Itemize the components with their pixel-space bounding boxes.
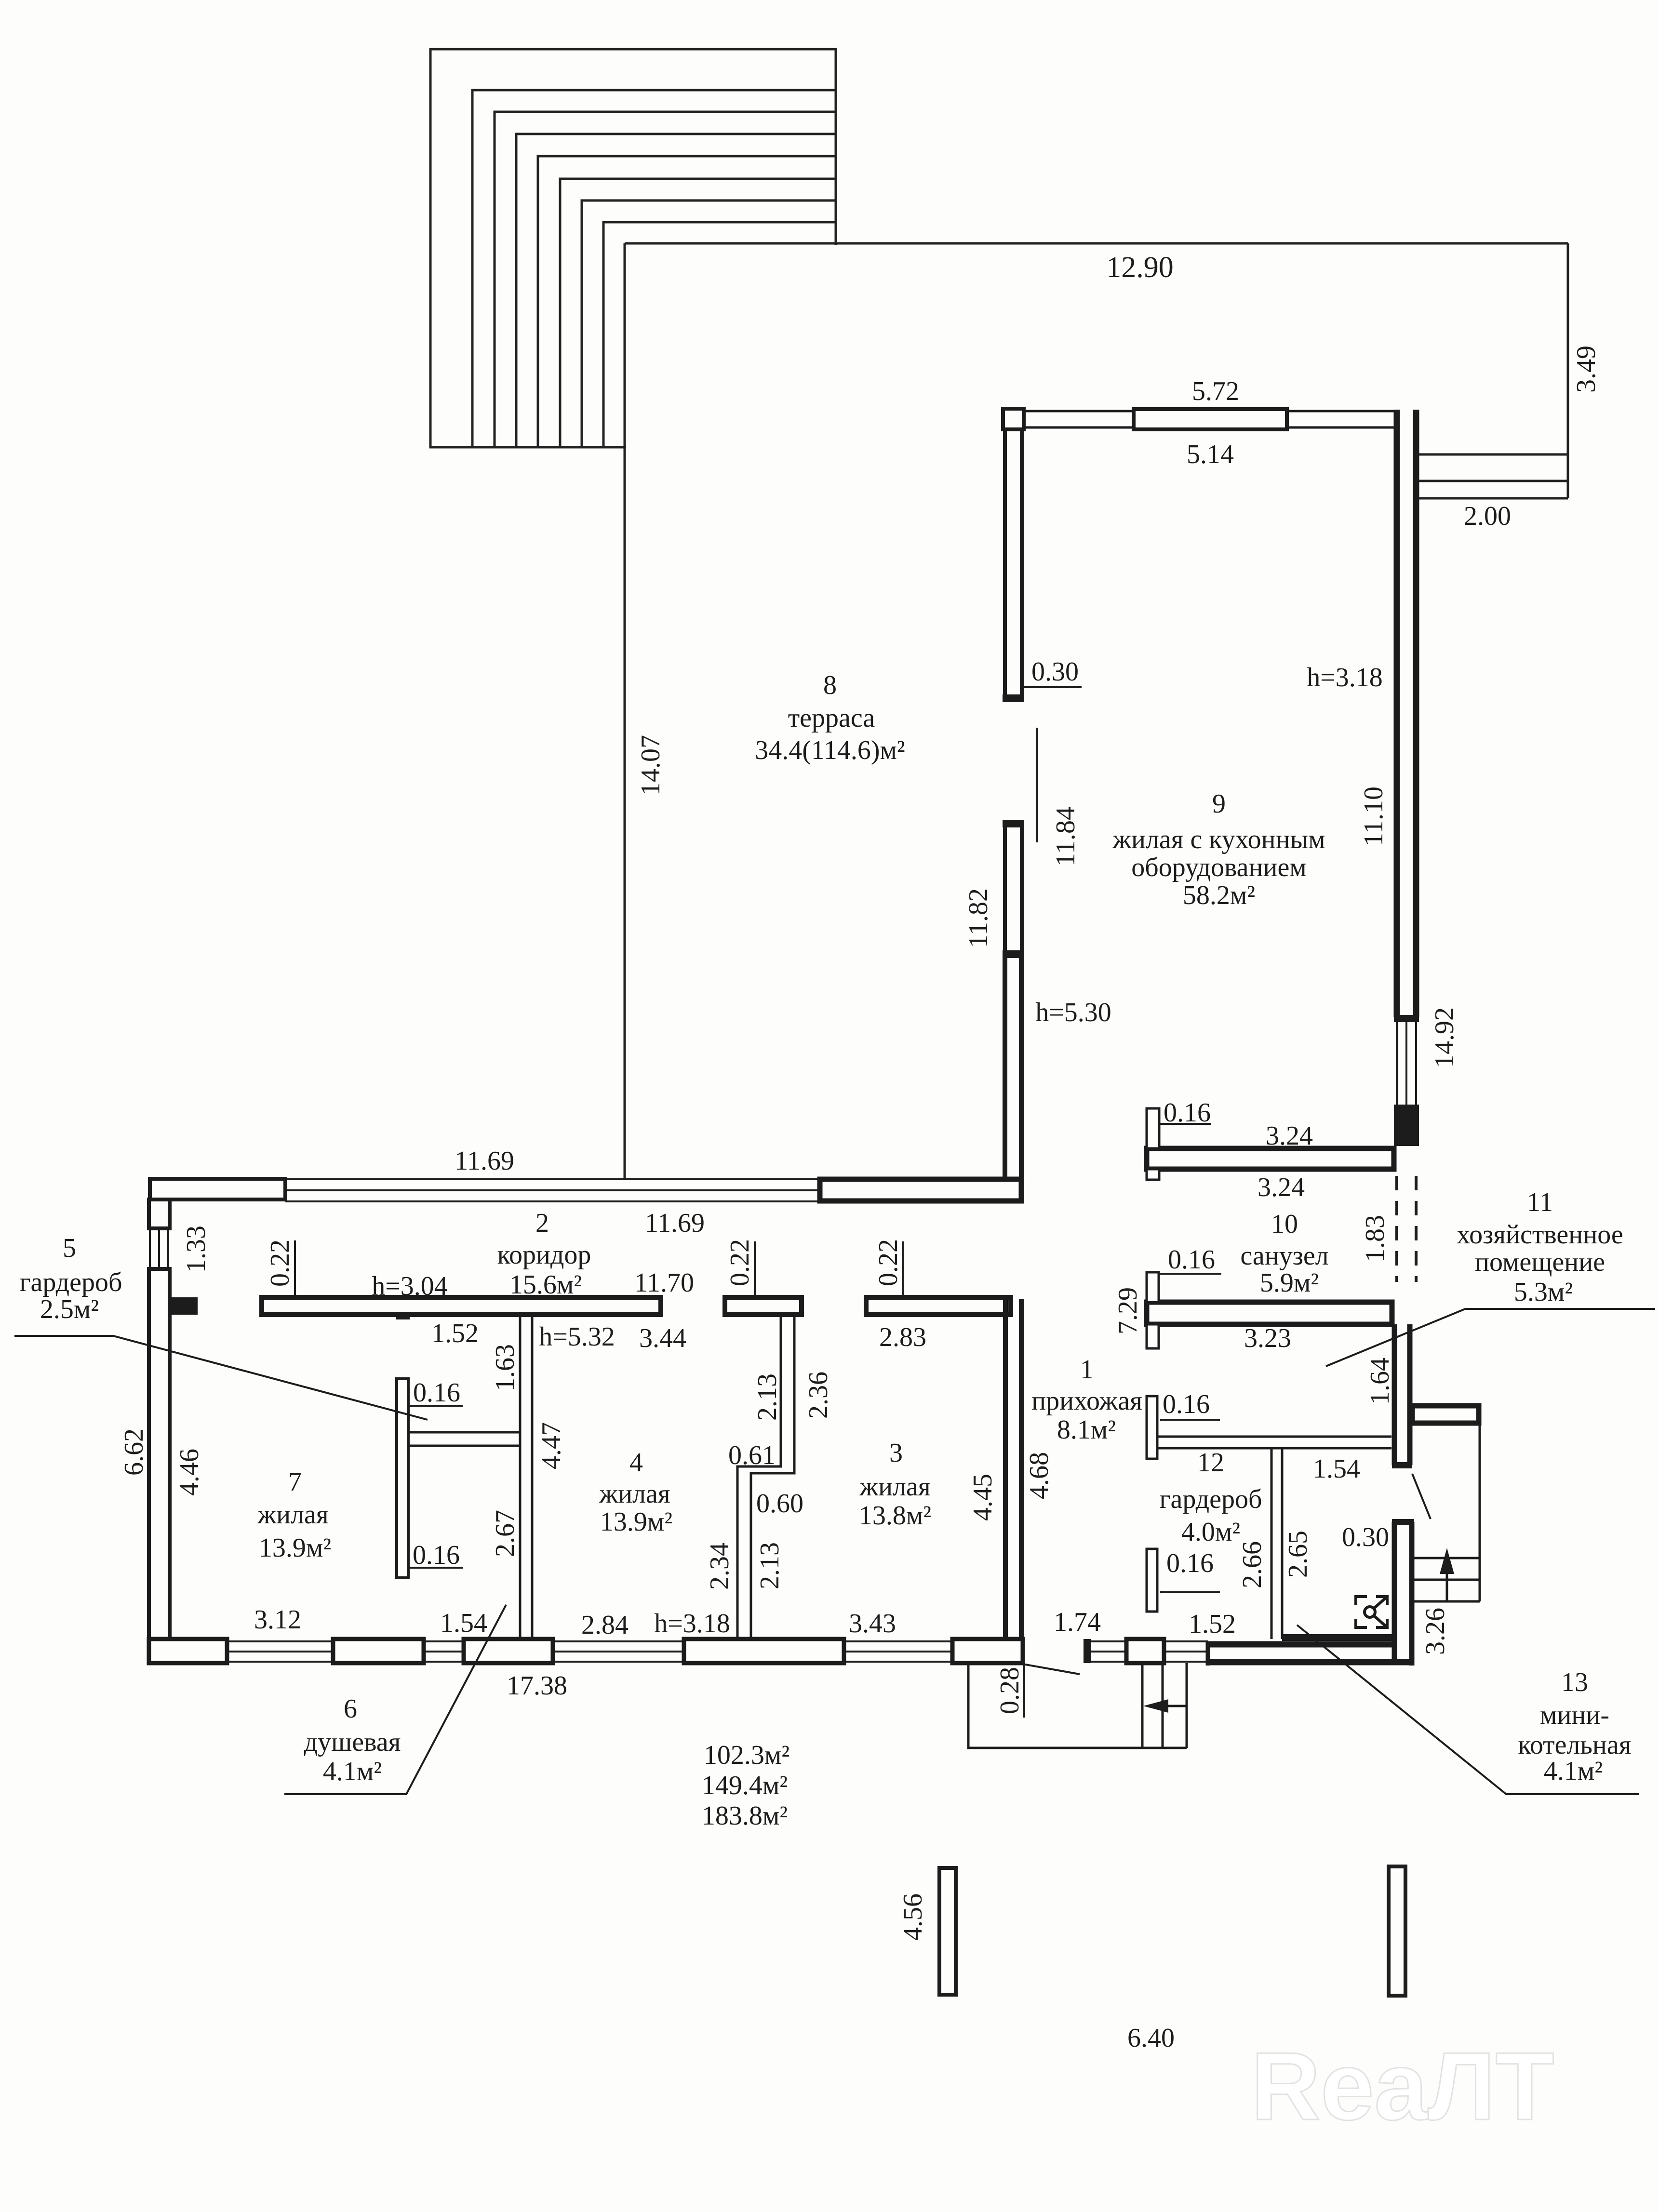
svg-text:3.26: 3.26 bbox=[1420, 1608, 1450, 1655]
svg-text:хозяйственное: хозяйственное bbox=[1457, 1220, 1623, 1250]
svg-text:2.84: 2.84 bbox=[581, 1610, 629, 1640]
svg-text:11.10: 11.10 bbox=[1359, 786, 1389, 846]
svg-text:2.13: 2.13 bbox=[752, 1373, 782, 1421]
svg-text:h=5.32: h=5.32 bbox=[539, 1322, 615, 1352]
bottom wall window 2.84 bbox=[844, 1641, 952, 1662]
stoop up-arrow bbox=[1446, 1564, 1448, 1601]
svg-text:3.44: 3.44 bbox=[639, 1323, 686, 1353]
corridor top wall: corner pier bbox=[150, 1179, 285, 1199]
svg-text:17.38: 17.38 bbox=[507, 1671, 567, 1701]
0.16 underline shower bbox=[408, 1567, 463, 1569]
svg-text:h=3.18: h=3.18 bbox=[654, 1609, 730, 1639]
sanuzel bottom wall 3.23 bbox=[1147, 1302, 1392, 1324]
svg-text:5: 5 bbox=[63, 1233, 76, 1263]
leader room 11 bbox=[1326, 1309, 1655, 1366]
svg-text:h=5.30: h=5.30 bbox=[1035, 998, 1111, 1027]
svg-text:12.90: 12.90 bbox=[1106, 251, 1174, 284]
svg-text:2.00: 2.00 bbox=[1464, 501, 1511, 531]
bottom wall pier bbox=[684, 1639, 844, 1663]
room 9 left wall cap bbox=[1003, 694, 1024, 702]
svg-text:1.33: 1.33 bbox=[181, 1226, 211, 1273]
leader room 5 bbox=[14, 1336, 428, 1420]
svg-text:149.4м²: 149.4м² bbox=[702, 1771, 788, 1800]
room 9 left wall: window lower bbox=[1005, 827, 1022, 950]
svg-text:2.13: 2.13 bbox=[755, 1542, 785, 1589]
svg-text:4.56: 4.56 bbox=[898, 1893, 928, 1941]
roof eaves nested corners bbox=[430, 49, 836, 447]
bottom wall pier bbox=[952, 1639, 1023, 1663]
svg-text:11.69: 11.69 bbox=[455, 1146, 514, 1176]
corridor bottom wall seg 2 bbox=[725, 1297, 802, 1315]
svg-text:4.1м²: 4.1м² bbox=[323, 1757, 382, 1786]
svg-text:0.16: 0.16 bbox=[1164, 1098, 1211, 1128]
leader room 6 bbox=[284, 1605, 506, 1794]
svg-text:3: 3 bbox=[889, 1438, 903, 1468]
room 9 top wall: corner pier bbox=[1003, 409, 1024, 429]
svg-text:8.1м²: 8.1м² bbox=[1057, 1415, 1116, 1445]
svg-text:7: 7 bbox=[288, 1467, 302, 1497]
svg-text:14.07: 14.07 bbox=[636, 735, 666, 796]
svg-text:15.6м²: 15.6м² bbox=[509, 1270, 582, 1300]
porch outline bbox=[968, 1663, 1187, 1748]
bottom wall pier bbox=[464, 1639, 553, 1663]
0.90 bump wall bbox=[1412, 1406, 1479, 1423]
svg-text:0.60: 0.60 bbox=[756, 1489, 803, 1519]
svg-text:2.34: 2.34 bbox=[705, 1543, 735, 1590]
bottom wall: corner pier bbox=[149, 1639, 227, 1663]
entry arrow bbox=[1166, 1705, 1187, 1707]
svg-text:5.9м²: 5.9м² bbox=[1260, 1268, 1319, 1298]
svg-text:5.72: 5.72 bbox=[1192, 376, 1239, 406]
corridor top wall: thick segment under terrace bbox=[820, 1179, 1021, 1201]
svg-text:2.5м²: 2.5м² bbox=[40, 1294, 99, 1324]
svg-text:душевая: душевая bbox=[304, 1727, 401, 1757]
dim underline 0.30 (terrace wall) bbox=[1024, 686, 1082, 688]
short leader at entry bbox=[1023, 1664, 1080, 1674]
svg-text:0.22: 0.22 bbox=[265, 1239, 295, 1287]
svg-text:2.66: 2.66 bbox=[1237, 1541, 1267, 1588]
svg-text:0.16: 0.16 bbox=[413, 1378, 460, 1408]
svg-text:4.46: 4.46 bbox=[174, 1449, 204, 1496]
left wall window 1.33 bbox=[150, 1228, 168, 1269]
svg-text:4.47: 4.47 bbox=[536, 1422, 566, 1469]
svg-text:жилая: жилая bbox=[859, 1472, 930, 1502]
svg-text:2.65: 2.65 bbox=[1283, 1531, 1313, 1578]
white cover (terrace over eaves) bbox=[626, 245, 838, 450]
room 9 left wall: window upper bbox=[1005, 429, 1022, 694]
0.16 tick column bbox=[1147, 1396, 1157, 1459]
prihozhaya top partition (hoz room floor) bbox=[1157, 1437, 1391, 1448]
partition rooms7/4 (double line) bbox=[520, 1315, 532, 1639]
svg-text:3.49: 3.49 bbox=[1571, 346, 1601, 393]
wall stub near closet 5 bbox=[170, 1297, 198, 1315]
svg-text:11.69: 11.69 bbox=[645, 1208, 705, 1238]
svg-text:11.84: 11.84 bbox=[1051, 807, 1081, 866]
svg-text:коридор: коридор bbox=[497, 1240, 591, 1270]
bottom wall pier bbox=[333, 1639, 424, 1663]
svg-text:3.12: 3.12 bbox=[254, 1605, 301, 1635]
roof right edge bbox=[1567, 243, 1569, 498]
0.16 underline closet bbox=[408, 1405, 463, 1407]
dashed opening 1.83 bbox=[1397, 1176, 1416, 1282]
svg-text:4.68: 4.68 bbox=[1024, 1452, 1054, 1499]
0.28 step line bbox=[1023, 1663, 1025, 1718]
svg-text:оборудованием: оборудованием bbox=[1131, 853, 1307, 882]
boiler west wall cap bbox=[1392, 1519, 1414, 1525]
svg-text:жилая: жилая bbox=[257, 1500, 328, 1530]
svg-text:котельная: котельная bbox=[1518, 1730, 1631, 1760]
svg-text:13.9м²: 13.9м² bbox=[259, 1533, 331, 1563]
corridor bottom wall seg 1 bbox=[262, 1297, 661, 1315]
prihozhaya west wall (hollow) bbox=[1003, 1299, 1008, 1639]
svg-text:34.4(114.6)м²: 34.4(114.6)м² bbox=[755, 735, 905, 765]
tick below bbox=[1147, 1169, 1159, 1180]
svg-text:гардероб: гардероб bbox=[1160, 1484, 1262, 1514]
svg-text:4.1м²: 4.1м² bbox=[1544, 1756, 1603, 1786]
svg-text:терраса: терраса bbox=[788, 703, 875, 733]
svg-text:0.28: 0.28 bbox=[995, 1667, 1025, 1714]
svg-text:мини-: мини- bbox=[1540, 1700, 1609, 1730]
svg-text:0.16: 0.16 bbox=[1163, 1389, 1210, 1419]
svg-text:h=3.18: h=3.18 bbox=[1307, 663, 1383, 693]
partition rooms 4/3 with jog bbox=[737, 1315, 794, 1639]
svg-text:2.67: 2.67 bbox=[490, 1510, 520, 1557]
bottom wall window bbox=[553, 1641, 684, 1662]
svg-text:4.45: 4.45 bbox=[968, 1474, 998, 1521]
svg-text:0.16: 0.16 bbox=[1168, 1245, 1215, 1275]
svg-text:1.63: 1.63 bbox=[490, 1344, 520, 1391]
svg-text:1.52: 1.52 bbox=[1189, 1609, 1236, 1639]
0.16 underline bbox=[1159, 1123, 1211, 1125]
svg-text:ReaЛТ: ReaЛТ bbox=[1251, 2033, 1554, 2140]
svg-text:h=3.04: h=3.04 bbox=[372, 1271, 448, 1301]
garderob 12 east partition bbox=[1271, 1448, 1282, 1639]
svg-text:прихожая: прихожая bbox=[1031, 1386, 1142, 1416]
svg-text:13: 13 bbox=[1561, 1667, 1588, 1697]
svg-text:санузел: санузел bbox=[1240, 1241, 1328, 1271]
prihozhaya east wall upper (hollow) bbox=[1392, 1324, 1397, 1465]
corridor top wall: glazed band bbox=[285, 1179, 820, 1201]
room 9 top wall: window glazing right bbox=[1287, 411, 1396, 427]
svg-text:14.92: 14.92 bbox=[1430, 1007, 1459, 1068]
svg-text:0.22: 0.22 bbox=[873, 1239, 903, 1286]
svg-text:1.52: 1.52 bbox=[431, 1319, 479, 1348]
sanuzel top wall 3.24 bbox=[1147, 1148, 1394, 1169]
bottom wall window 3.12 bbox=[227, 1641, 333, 1662]
svg-text:4: 4 bbox=[629, 1448, 643, 1478]
svg-text:2.83: 2.83 bbox=[879, 1322, 926, 1352]
svg-text:жилая с кухонным: жилая с кухонным bbox=[1112, 825, 1325, 854]
small leader 0.30 bbox=[1412, 1474, 1431, 1519]
svg-text:12: 12 bbox=[1197, 1448, 1224, 1478]
entry walkway rails bbox=[1142, 1663, 1187, 1748]
svg-text:10: 10 bbox=[1271, 1209, 1298, 1239]
room 9 right wall cap bbox=[1394, 1015, 1419, 1022]
svg-text:3.43: 3.43 bbox=[849, 1609, 896, 1639]
svg-text:0.30: 0.30 bbox=[1342, 1522, 1389, 1552]
svg-text:8: 8 bbox=[823, 670, 837, 700]
corridor bottom wall seg 3 bbox=[866, 1297, 1011, 1315]
cap bbox=[1392, 1462, 1412, 1468]
room 9 left wall cap bbox=[1003, 820, 1024, 827]
svg-text:3.23: 3.23 bbox=[1244, 1323, 1291, 1353]
svg-text:0.30: 0.30 bbox=[1031, 657, 1079, 687]
svg-text:1.54: 1.54 bbox=[1313, 1454, 1360, 1484]
room 9 left wall cap bbox=[1003, 950, 1024, 958]
closet 5 west partition top cap bbox=[396, 1315, 410, 1319]
freestanding pier left 4.56 bbox=[939, 1868, 956, 1995]
room 9 right wall upper (hollow) bbox=[1394, 410, 1400, 1017]
0.22 tick lines bbox=[294, 1240, 296, 1297]
svg-text:1: 1 bbox=[1080, 1355, 1094, 1385]
svg-text:0.22: 0.22 bbox=[725, 1239, 755, 1286]
svg-text:5.14: 5.14 bbox=[1187, 440, 1234, 469]
svg-text:5.3м²: 5.3м² bbox=[1514, 1277, 1573, 1307]
dim extension line 11.84 bbox=[1036, 728, 1038, 842]
svg-text:102.3м²: 102.3м² bbox=[704, 1740, 789, 1770]
svg-text:11.70: 11.70 bbox=[634, 1268, 694, 1298]
room 9 top wall: window glazing left bbox=[1024, 411, 1134, 427]
left exterior wall lower segment bbox=[149, 1269, 170, 1640]
svg-text:1.74: 1.74 bbox=[1054, 1607, 1101, 1637]
tick above bbox=[1147, 1272, 1159, 1302]
outside stoop right edge bbox=[1479, 1426, 1481, 1601]
boiler symbol bbox=[1356, 1597, 1387, 1627]
svg-text:3.24: 3.24 bbox=[1266, 1121, 1313, 1151]
freestanding pier right bbox=[1389, 1866, 1405, 1996]
svg-text:гардероб: гардероб bbox=[20, 1267, 122, 1297]
svg-text:4.0м²: 4.0м² bbox=[1181, 1517, 1240, 1547]
svg-text:0.16: 0.16 bbox=[1166, 1548, 1214, 1578]
svg-text:11: 11 bbox=[1527, 1187, 1553, 1217]
svg-text:2: 2 bbox=[535, 1208, 549, 1238]
garderob 12 west partition bbox=[1147, 1549, 1157, 1612]
svg-text:1.83: 1.83 bbox=[1360, 1215, 1390, 1262]
entry pier bbox=[1126, 1639, 1164, 1663]
entry door cap bbox=[1084, 1639, 1091, 1663]
terrace / roof outline bbox=[625, 243, 1568, 1179]
svg-text:жилая: жилая bbox=[599, 1479, 670, 1509]
leader room 13 bbox=[1297, 1625, 1639, 1794]
entry sidelight window bbox=[1164, 1641, 1208, 1662]
terrace left edge bbox=[624, 243, 626, 1179]
0.16 underline bbox=[1160, 1591, 1220, 1593]
mini-boiler south wall (thick) bbox=[1282, 1634, 1392, 1641]
roof top edge bbox=[625, 242, 1568, 245]
bottom wall right hollow section bbox=[1208, 1641, 1392, 1648]
0.16 underline bbox=[1160, 1419, 1220, 1421]
tick above bbox=[1147, 1108, 1159, 1148]
svg-text:3.24: 3.24 bbox=[1258, 1173, 1305, 1202]
svg-text:13.8м²: 13.8м² bbox=[859, 1501, 931, 1531]
closet 5 bottom partition bbox=[408, 1432, 520, 1446]
room 9 top wall: window frame 5.72 bbox=[1134, 409, 1287, 429]
svg-text:6.40: 6.40 bbox=[1127, 2023, 1175, 2053]
svg-text:0.16: 0.16 bbox=[413, 1540, 460, 1570]
svg-text:13.9м²: 13.9м² bbox=[600, 1507, 672, 1537]
svg-text:183.8м²: 183.8м² bbox=[702, 1801, 788, 1831]
0.16 underline bbox=[1159, 1273, 1221, 1275]
stoop steps bbox=[1414, 1558, 1480, 1601]
terrace/room9 dividing wall (hollow) bbox=[1003, 958, 1007, 1179]
boiler west wall (hollow) bbox=[1392, 1522, 1397, 1662]
svg-text:1.64: 1.64 bbox=[1365, 1358, 1395, 1405]
svg-text:7.29: 7.29 bbox=[1113, 1287, 1143, 1334]
svg-text:9: 9 bbox=[1212, 789, 1226, 819]
svg-text:помещение: помещение bbox=[1475, 1247, 1605, 1277]
step ledge lines 2.00 bbox=[1419, 453, 1568, 456]
svg-text:58.2м²: 58.2м² bbox=[1183, 880, 1255, 910]
svg-text:2.36: 2.36 bbox=[803, 1372, 833, 1419]
svg-text:11.82: 11.82 bbox=[963, 888, 993, 948]
tick below bbox=[1147, 1324, 1159, 1348]
svg-text:0.61: 0.61 bbox=[728, 1440, 776, 1470]
svg-text:1.54: 1.54 bbox=[440, 1608, 487, 1638]
svg-text:6.62: 6.62 bbox=[119, 1428, 149, 1476]
entry sidelight window bbox=[1091, 1641, 1126, 1662]
room 9 right wall window 14.92 bbox=[1397, 1022, 1416, 1105]
svg-text:6: 6 bbox=[344, 1694, 357, 1724]
bottom wall window bbox=[424, 1641, 464, 1662]
room 9 right wall solid pier bbox=[1394, 1105, 1419, 1146]
closet/shower west partition bbox=[397, 1379, 408, 1578]
left exterior wall upper segment bbox=[149, 1199, 170, 1228]
